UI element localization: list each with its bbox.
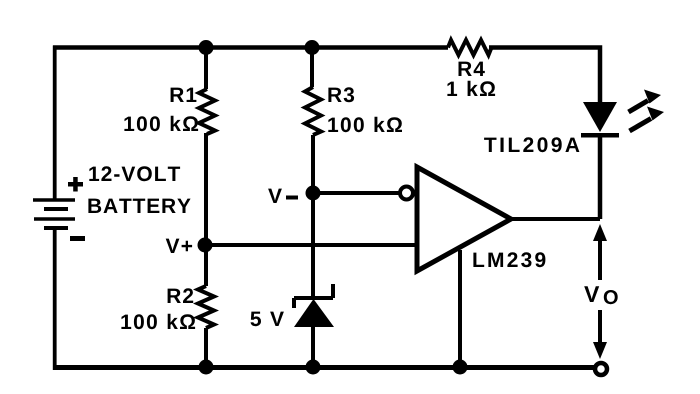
wire op-amp output: [511, 217, 600, 221]
LED D2 TIL209A triangle: [583, 102, 617, 132]
wire bottom rail: [53, 365, 594, 370]
resistor R2: [198, 286, 214, 328]
label R2: [168, 288, 194, 303]
battery BT1 minus sign: [70, 236, 85, 241]
label R3: [328, 87, 354, 102]
label R1: [171, 88, 197, 102]
battery BT1 plate long top: [33, 198, 75, 202]
label R2 value 100 kOhm: [121, 314, 195, 329]
label node V- dash: [286, 196, 298, 200]
label node V- letter: [268, 189, 282, 203]
label node V+: [166, 239, 192, 253]
LED D2 emission arrow lower: [630, 107, 665, 132]
annotation Vo up arrow: [593, 224, 607, 280]
wire V- node down to zener: [311, 193, 315, 297]
battery BT1 plate long: [34, 217, 75, 221]
resistor R3: [305, 87, 321, 135]
label battery 12-VOLT: [89, 166, 180, 181]
wire R2 bottom: [204, 328, 208, 367]
node top rail R3 junction: [305, 40, 320, 55]
wire R2 top: [204, 246, 208, 286]
wire LED cathode down to output node: [598, 137, 603, 219]
node bottom rail op-amp ground junction: [453, 360, 468, 375]
wire op-amp ground pin: [458, 250, 462, 367]
wire zener anode to bottom rail: [311, 326, 315, 367]
label R4 value 1 kOhm: [447, 81, 495, 96]
annotation Vo down arrow: [593, 310, 607, 359]
label battery BATTERY: [88, 199, 190, 213]
LED D2 cathode bar: [581, 133, 619, 138]
label R4: [459, 62, 485, 76]
label op-amp LM239: [473, 252, 545, 267]
zener diode D1 cathode bar with hooks: [294, 284, 333, 308]
wire left rail lower: [53, 228, 57, 370]
node V-: [306, 186, 321, 201]
node V+: [198, 238, 213, 253]
zener diode D1 triangle: [294, 299, 334, 327]
wire V+ node to op-amp noninverting input: [205, 243, 417, 247]
label R1 value 100 kOhm: [124, 116, 198, 131]
resistor R1: [199, 89, 215, 134]
battery BT1 plate short: [44, 207, 68, 211]
wire top rail left segment: [53, 45, 448, 50]
node top rail R1 junction: [199, 40, 214, 55]
wire R1 to V+ node: [204, 133, 208, 246]
node bottom rail R2 junction: [199, 360, 214, 375]
label zener value 5 V: [251, 312, 284, 327]
wire left rail upper: [53, 46, 57, 200]
LED D2 emission arrow upper: [629, 90, 662, 113]
node bottom rail zener junction: [306, 360, 321, 375]
op-amp U1 LM239 triangle: [417, 167, 511, 271]
battery BT1 plus sign: [68, 177, 83, 192]
wire R1 branch top: [204, 47, 208, 89]
label LED TIL209A: [484, 137, 579, 152]
battery BT1 plate short bottom: [44, 226, 68, 230]
wire V- node to op-amp inverting input: [313, 191, 399, 195]
terminal Vo open circle: [595, 363, 607, 375]
label R3 value 100 kOhm: [328, 117, 402, 132]
op-amp U1 inverting input bubble: [400, 187, 413, 200]
label Vo: [584, 286, 618, 304]
wire R3 to V- node: [311, 135, 315, 193]
wire R3 branch top: [310, 47, 314, 87]
resistor R4: [448, 40, 492, 55]
wire top rail right segment: [489, 48, 600, 104]
